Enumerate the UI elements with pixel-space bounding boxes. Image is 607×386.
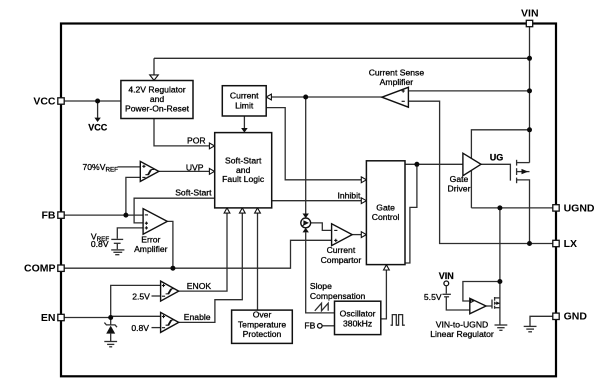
- svg-text:Gate: Gate: [450, 174, 469, 184]
- svg-text:Over: Over: [253, 310, 272, 320]
- svg-text:VIN-to-UGND: VIN-to-UGND: [436, 320, 489, 330]
- svg-text:0.8V: 0.8V: [91, 239, 109, 249]
- svg-text:VIN: VIN: [521, 8, 539, 20]
- svg-text:Inhibit: Inhibit: [337, 190, 361, 200]
- svg-text:Gate: Gate: [376, 202, 395, 212]
- svg-text:Slope: Slope: [310, 281, 332, 291]
- svg-text:Power-On-Reset: Power-On-Reset: [125, 104, 190, 114]
- svg-text:4.2V Regulator: 4.2V Regulator: [128, 84, 185, 94]
- svg-text:EN: EN: [41, 312, 56, 324]
- svg-text:UVP: UVP: [186, 163, 204, 173]
- svg-text:Driver: Driver: [448, 184, 471, 194]
- svg-text:380kHz: 380kHz: [343, 319, 372, 329]
- svg-text:and: and: [150, 94, 165, 104]
- svg-text:FB: FB: [42, 209, 56, 221]
- svg-text:Compensation: Compensation: [310, 291, 366, 301]
- svg-text:0.8V: 0.8V: [131, 323, 149, 333]
- svg-text:Compartor: Compartor: [321, 255, 362, 265]
- svg-text:Enable: Enable: [184, 312, 211, 322]
- svg-text:VCC: VCC: [88, 123, 108, 133]
- svg-text:Temperature: Temperature: [238, 319, 286, 329]
- svg-text:VIN: VIN: [439, 271, 454, 281]
- svg-text:VCC: VCC: [33, 95, 56, 107]
- svg-text:Control: Control: [372, 212, 400, 222]
- svg-text:Soft-Start: Soft-Start: [175, 188, 212, 198]
- svg-text:UG: UG: [490, 152, 504, 162]
- svg-text:POR: POR: [187, 136, 206, 146]
- svg-text:Current: Current: [230, 90, 259, 100]
- svg-text:Linear Regulator: Linear Regulator: [430, 329, 494, 339]
- svg-text:5.5V: 5.5V: [424, 292, 442, 302]
- svg-text:Oscillator: Oscillator: [340, 309, 376, 319]
- svg-text:UGND: UGND: [564, 202, 595, 214]
- svg-text:COMP: COMP: [24, 263, 56, 275]
- svg-text:FB: FB: [304, 321, 315, 331]
- svg-text:Protection: Protection: [243, 329, 282, 339]
- svg-text:Limit: Limit: [235, 100, 254, 110]
- svg-text:GND: GND: [564, 311, 588, 323]
- svg-text:Current: Current: [327, 245, 356, 255]
- svg-text:Amplifier: Amplifier: [134, 244, 168, 254]
- svg-text:2.5V: 2.5V: [132, 291, 150, 301]
- svg-text:Fault Logic: Fault Logic: [222, 174, 265, 184]
- svg-text:Amplifier: Amplifier: [380, 77, 414, 87]
- svg-text:LX: LX: [564, 238, 577, 250]
- svg-text:ENOK: ENOK: [187, 281, 212, 291]
